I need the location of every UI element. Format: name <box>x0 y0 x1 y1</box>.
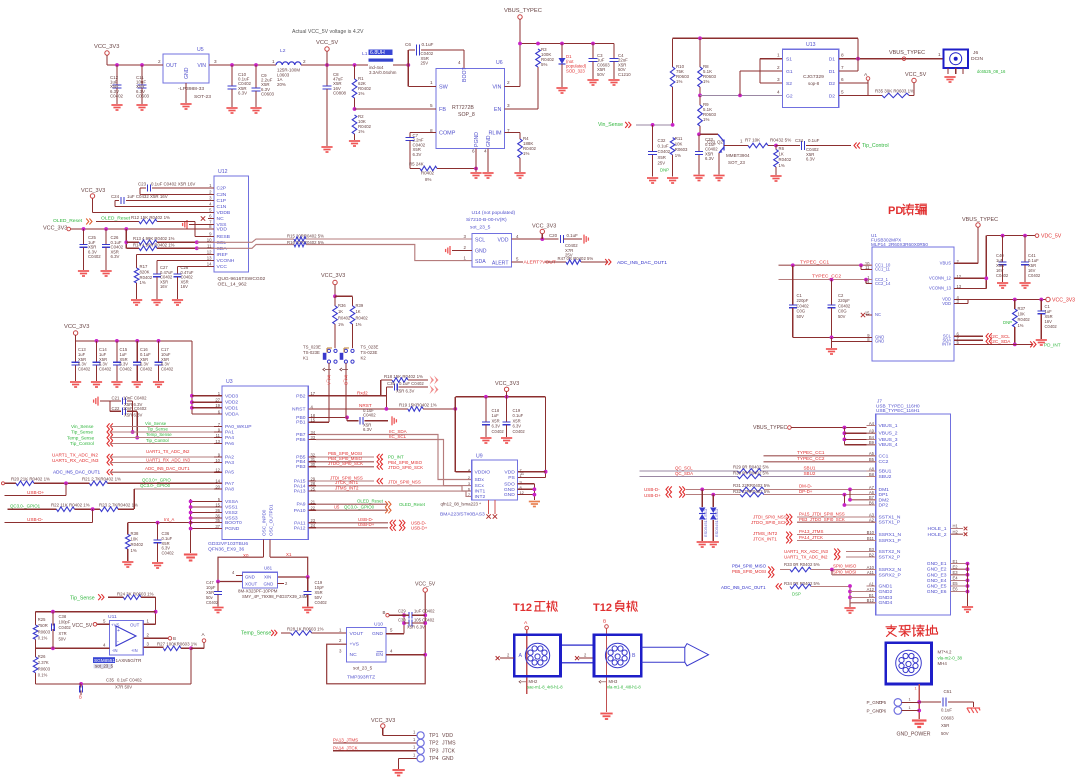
ground <box>70 382 81 387</box>
capacitor C2 <box>831 280 833 305</box>
svg-text:R0603: R0603 <box>38 629 51 634</box>
capacitor C47 xtal left <box>217 582 219 592</box>
svg-text:LP3988-33: LP3988-33 <box>180 86 204 92</box>
capacitor C13 <box>75 341 77 362</box>
svg-text:NRST: NRST <box>292 406 305 412</box>
ground <box>708 542 719 547</box>
wire MH4 down <box>918 684 920 719</box>
ground <box>693 176 704 181</box>
svg-text:1: 1 <box>915 686 917 691</box>
svg-text:S1: S1 <box>786 57 792 63</box>
wire GND pin to caps <box>386 633 404 635</box>
svg-text:ALERT: ALERT <box>492 261 509 267</box>
net USB-D- branch <box>92 509 94 522</box>
svg-text:IIC_SCL: IIC_SCL <box>389 434 407 439</box>
svg-text:R33 0R R0402 5%: R33 0R R0402 5% <box>784 562 820 567</box>
svg-text:SBU2: SBU2 <box>879 474 892 480</box>
svg-text:HOLE_1: HOLE_1 <box>928 526 947 532</box>
svg-text:TP2: TP2 <box>429 741 439 747</box>
ground <box>1036 340 1047 345</box>
svg-text:SSRX1_P: SSRX1_P <box>879 538 902 544</box>
svg-text:C61: C61 <box>944 689 953 694</box>
wire VDD to VCC_3V3 <box>512 238 559 240</box>
svg-text:IREF: IREF <box>217 252 228 258</box>
svg-text:4: 4 <box>458 60 461 65</box>
svg-text:DNP: DNP <box>1003 320 1012 325</box>
svg-text:Si7210-B-00-IV(R): Si7210-B-00-IV(R) <box>466 217 507 223</box>
svg-text:10K: 10K <box>131 537 139 542</box>
svg-text:R39: R39 <box>356 303 364 308</box>
ground <box>302 608 313 613</box>
svg-text:VIN: VIN <box>492 84 501 90</box>
svg-text:PA4: PA4 <box>225 435 234 441</box>
testpoint TP6 <box>894 707 902 715</box>
svg-text:R25: R25 <box>38 617 46 622</box>
svg-text:C0402: C0402 <box>140 367 153 372</box>
svg-text:U9: U9 <box>476 454 483 460</box>
svg-text:0.1%: 0.1% <box>38 673 48 678</box>
svg-text:SSRX2_P: SSRX2_P <box>879 572 902 578</box>
svg-text:XIN: XIN <box>264 575 271 580</box>
svg-text:USB-D+: USB-D+ <box>644 493 661 498</box>
svg-text:TMP393RTZ: TMP393RTZ <box>347 675 375 681</box>
svg-text:VDD: VDD <box>942 301 951 306</box>
svg-text:1%: 1% <box>140 280 146 285</box>
net PA11 USB-D- <box>316 522 388 524</box>
svg-text:VCC_5V: VCC_5V <box>316 40 338 46</box>
svg-text:T12: T12 <box>513 602 532 614</box>
svg-text:QUG-9616TSWCG02: QUG-9616TSWCG02 <box>218 276 266 282</box>
svg-text:8: 8 <box>841 53 844 58</box>
wire OSC_OUT X1 <box>269 539 271 557</box>
capacitor C19 u9 <box>506 397 508 422</box>
svg-text:0.1uF: 0.1uF <box>422 42 434 47</box>
svg-text:SBU2: SBU2 <box>804 471 816 476</box>
svg-text:K2: K2 <box>361 355 367 360</box>
ground <box>111 382 122 387</box>
switch K1 TS_023E <box>327 349 330 352</box>
svg-text:0.1%: 0.1% <box>38 636 48 641</box>
svg-text:PB1: PB1 <box>296 420 306 426</box>
svg-text:C0808: C0808 <box>333 90 347 95</box>
capacitor C35 <box>381 395 387 397</box>
svg-text:PA2: PA2 <box>225 454 234 460</box>
svg-text:X5R 6.3V: X5R 6.3V <box>124 412 142 417</box>
svg-text:OEL_14_962: OEL_14_962 <box>218 282 247 288</box>
svg-text:C0402: C0402 <box>161 367 174 372</box>
svg-text:C23: C23 <box>138 182 147 187</box>
svg-text:INT2: INT2 <box>475 494 486 500</box>
connector MH1 <box>514 635 560 677</box>
svg-text:VCC_3V3: VCC_3V3 <box>1052 298 1075 304</box>
svg-text:C0603: C0603 <box>941 715 954 720</box>
svg-text:100pF: 100pF <box>59 620 71 625</box>
svg-text:R0402: R0402 <box>421 171 435 176</box>
wire PB7 I2C SDA to U9 <box>316 435 472 480</box>
svg-text:JTMS_INT2: JTMS_INT2 <box>753 531 778 536</box>
svg-text:TP3: TP3 <box>429 749 439 755</box>
svg-text:C20: C20 <box>549 233 558 238</box>
wire K2 to PB0 <box>345 363 347 417</box>
resistor R35 <box>882 93 909 98</box>
svg-text:VCONN_13: VCONN_13 <box>929 286 952 291</box>
svg-text:C35: C35 <box>387 381 395 386</box>
regulator U5 LP3988-33 <box>163 54 209 83</box>
resistor R26 <box>35 648 37 657</box>
svg-text:C0402: C0402 <box>363 413 376 418</box>
svg-text:NC: NC <box>875 312 881 317</box>
svg-text:DP-D+: DP-D+ <box>799 489 813 494</box>
svg-text:INT1: INT1 <box>475 489 486 495</box>
svg-text:PB6: PB6 <box>296 437 306 443</box>
svg-text:R20 21K R0402 1%: R20 21K R0402 1% <box>11 476 50 481</box>
svg-text:FB: FB <box>439 107 446 113</box>
svg-text:16V: 16V <box>160 284 168 289</box>
svg-text:R0402: R0402 <box>140 275 153 280</box>
svg-text:C34: C34 <box>795 138 804 143</box>
svg-text:C0402: C0402 <box>513 429 526 434</box>
ground power <box>912 721 927 728</box>
svg-text:INT#: INT# <box>942 342 952 347</box>
net PA10 QC GPIO <box>316 509 388 511</box>
ground earth <box>973 702 975 707</box>
svg-text:0.1uF C0402: 0.1uF C0402 <box>399 381 424 386</box>
svg-text:5: 5 <box>841 89 844 94</box>
svg-text:GND_E5: GND_E5 <box>927 584 947 590</box>
net PA15 NSS <box>316 480 374 482</box>
svg-text:L1: L1 <box>362 51 368 57</box>
svg-text:7: 7 <box>468 492 470 497</box>
wire EN to R3 <box>505 108 539 110</box>
svg-text:R11: R11 <box>675 136 683 141</box>
wire decoupling rail <box>76 340 192 342</box>
wire BOOT0 Int_A <box>128 522 214 524</box>
svg-text:SSRX2_N: SSRX2_N <box>879 567 902 573</box>
svg-text:VDD: VDD <box>217 227 228 233</box>
svg-text:PGND: PGND <box>474 132 480 147</box>
ground <box>180 104 191 109</box>
svg-text:UART1_TX_ADC_IN2: UART1_TX_ADC_IN2 <box>146 449 190 454</box>
svg-text:H2: H2 <box>953 529 959 534</box>
svg-text:OLED_Reset: OLED_Reset <box>399 502 426 507</box>
svg-text:DM-D-: DM-D- <box>799 484 813 489</box>
svg-text:U13: U13 <box>806 42 816 48</box>
svg-text:USB-D+: USB-D+ <box>27 490 44 495</box>
svg-text:1: 1 <box>938 52 941 57</box>
svg-text:PA0_WKUP: PA0_WKUP <box>225 424 252 430</box>
svg-text:GND_E6: GND_E6 <box>927 589 947 595</box>
wire NRST <box>316 408 408 410</box>
wire PB1 to K1 line <box>316 421 329 423</box>
svg-text:10nF C0402: 10nF C0402 <box>123 395 147 400</box>
svg-text:10nF C0402: 10nF C0402 <box>123 406 147 411</box>
wire INT# <box>954 343 1033 345</box>
svg-text:1%: 1% <box>779 163 785 168</box>
svg-text:6.3V: 6.3V <box>705 156 714 161</box>
wire L1 node to SW <box>393 64 408 66</box>
svg-text:4: 4 <box>777 89 780 94</box>
svg-text:VSS2: VSS2 <box>225 510 238 516</box>
svg-text:Int_A: Int_A <box>326 375 331 385</box>
svg-text:C22: C22 <box>112 406 120 411</box>
capacitor C21 <box>110 400 121 402</box>
capacitor C19 xtal right <box>307 577 309 591</box>
svg-text:SOT_23: SOT_23 <box>728 160 745 165</box>
ground <box>132 382 143 387</box>
svg-text:QC3.0+_GPIO: QC3.0+_GPIO <box>142 478 171 483</box>
svg-text:1%: 1% <box>358 129 364 134</box>
svg-text:1%: 1% <box>676 79 682 84</box>
resistor R5 <box>410 168 420 170</box>
capacitor C7 and COMP <box>410 132 436 134</box>
svg-text:QC_SDA: QC_SDA <box>675 471 693 476</box>
svg-text:3: 3 <box>777 77 780 82</box>
net label Tip_Control <box>854 143 860 149</box>
svg-text:GND_POWER: GND_POWER <box>897 732 931 738</box>
svg-text:6.3V: 6.3V <box>111 254 120 259</box>
svg-text:R18 15K R0402 1%: R18 15K R0402 1% <box>384 374 423 379</box>
svg-text:25V: 25V <box>421 61 429 66</box>
svg-text:GND: GND <box>504 492 515 498</box>
capacitor C30 <box>409 620 412 627</box>
resistor R13 SCL pullup <box>125 229 127 248</box>
svg-text:CC1: CC1 <box>879 453 889 459</box>
svg-text:U81: U81 <box>264 566 273 571</box>
ground <box>529 502 540 507</box>
junction dots SCL SDA <box>195 240 199 244</box>
svg-text:PA5: PA5 <box>225 470 234 476</box>
svg-text:1: 1 <box>909 697 911 702</box>
svg-text:MLP14_2R60X3R60X0R50: MLP14_2R60X3R60X0R50 <box>871 242 928 247</box>
svg-text:VCC_3V3: VCC_3V3 <box>371 718 395 724</box>
svg-text:C0402: C0402 <box>1045 324 1058 329</box>
svg-text:3: 3 <box>507 103 510 108</box>
svg-text:SSTX1_P: SSTX1_P <box>879 520 901 526</box>
net PB4 SPI MISO <box>316 461 374 463</box>
svg-text:C0402: C0402 <box>120 367 133 372</box>
tvs diode ESD5451X 1 <box>701 489 703 507</box>
wire A to connector <box>526 630 528 694</box>
svg-text:I2C_SCL: I2C_SCL <box>991 334 1010 339</box>
svg-text:M7*4.2: M7*4.2 <box>938 650 953 655</box>
svg-text:1%: 1% <box>675 153 681 158</box>
wire VDD rail <box>954 299 1046 301</box>
svg-text:TYPEC_CC1: TYPEC_CC1 <box>800 259 829 265</box>
svg-text:BOOT: BOOT <box>462 66 468 82</box>
svg-text:C35: C35 <box>106 678 114 683</box>
svg-text:Tip_Control: Tip_Control <box>70 441 94 446</box>
wire VCC_3V3 rail above U9 <box>455 396 545 398</box>
svg-text:JTCK_INT1: JTCK_INT1 <box>753 537 777 542</box>
capacitor C3 <box>592 44 594 59</box>
svg-text:C2P: C2P <box>217 186 227 192</box>
svg-text:PA8: PA8 <box>225 486 234 492</box>
oled driver U12 <box>214 176 249 272</box>
svg-text:HOLE_2: HOLE_2 <box>928 532 947 538</box>
wire TYPEC_CC1 <box>779 264 873 266</box>
svg-text:C0402: C0402 <box>492 429 505 434</box>
wire K1 to PB1 <box>328 363 330 422</box>
wire left vertical to VDDIO <box>454 397 456 472</box>
capacitor C33 <box>698 134 700 151</box>
svg-text:VCC_5V: VCC_5V <box>72 623 93 629</box>
svg-text:OLED_Reset: OLED_Reset <box>101 216 131 222</box>
svg-text:SCL: SCL <box>475 238 485 244</box>
svg-text:DM1: DM1 <box>879 487 890 493</box>
svg-text:X5R 6.3V: X5R 6.3V <box>407 625 425 630</box>
wire FB <box>355 108 436 110</box>
svg-text:Tip_Control: Tip_Control <box>146 438 169 443</box>
resistor R39 <box>352 296 354 306</box>
svg-text:MH4: MH4 <box>938 661 948 666</box>
ground <box>608 80 619 85</box>
svg-text:0.1uF C0402: 0.1uF C0402 <box>117 678 142 683</box>
svg-text:sot_23_5: sot_23_5 <box>470 225 491 231</box>
net PB5 SPI MOSI <box>316 456 374 458</box>
svg-text:JTDO_SPI0_SCK: JTDO_SPI0_SCK <box>328 461 363 466</box>
svg-text:+VS: +VS <box>350 642 360 648</box>
resistor R10 <box>672 38 674 67</box>
wire GND pins j7 <box>849 586 851 603</box>
svg-text:MH2: MH2 <box>529 679 538 684</box>
svg-text:VCC_5V: VCC_5V <box>905 72 927 78</box>
svg-text:PA13: PA13 <box>294 489 306 495</box>
svg-text:JTCK: JTCK <box>442 749 456 755</box>
capacitor C9 <box>255 65 257 88</box>
svg-text:50V: 50V <box>59 636 67 641</box>
svg-text:1: 1 <box>909 705 911 710</box>
svg-text:PA9: PA9 <box>297 502 306 508</box>
svg-text:0.1uF: 0.1uF <box>567 233 579 238</box>
svg-text:T12: T12 <box>593 602 612 614</box>
net A stub <box>839 82 868 84</box>
svg-text:SOD_323: SOD_323 <box>566 68 585 73</box>
wire gate node to U13 <box>700 94 783 96</box>
net port B <box>168 637 171 640</box>
capacitor C40 <box>1002 236 1004 262</box>
svg-text:6.8UH: 6.8UH <box>370 50 385 56</box>
svg-text:750R: 750R <box>38 623 48 628</box>
arrow net <box>430 385 435 394</box>
svg-text:DM2: DM2 <box>879 497 890 503</box>
wire L2 to VCC_5V node <box>301 64 368 66</box>
svg-text:PA12: PA12 <box>294 525 306 531</box>
svg-text:SMY_4P_79X98_P4D37X39_24M: SMY_4P_79X98_P4D37X39_24M <box>242 594 308 599</box>
svg-text:A: A <box>519 653 523 659</box>
ground <box>111 105 122 110</box>
capacitor C34 <box>776 145 800 147</box>
capacitor C41 <box>1024 236 1026 262</box>
svg-text:CC1_11: CC1_11 <box>875 267 891 272</box>
svg-text:S2: S2 <box>786 81 792 87</box>
svg-text:VCC_3V3: VCC_3V3 <box>81 188 105 194</box>
net ALERT VOUT <box>512 261 524 263</box>
svg-text:C0402: C0402 <box>88 254 101 259</box>
svg-text:1%: 1% <box>358 91 364 96</box>
svg-text:SPI0_MISO: SPI0_MISO <box>833 564 857 569</box>
svg-text:1: 1 <box>272 59 275 64</box>
svg-text:Q2: Q2 <box>717 140 723 145</box>
wire PB6 I2C SCL to U9 <box>316 440 472 486</box>
svg-text:PGND: PGND <box>225 526 240 532</box>
svg-text:JTDO_SPI0_SCK: JTDO_SPI0_SCK <box>388 465 423 470</box>
svg-text:C0603: C0603 <box>136 93 150 98</box>
ground <box>250 108 261 113</box>
svg-text:Temp_Sense: Temp_Sense <box>241 631 271 637</box>
svg-text:MMBT3904: MMBT3904 <box>726 153 750 158</box>
svg-text:L2: L2 <box>280 48 286 54</box>
svg-text:VBUS_1: VBUS_1 <box>879 423 898 429</box>
capacitor C16 <box>136 341 138 362</box>
svg-text:+VS: +VS <box>111 623 120 628</box>
arrow net <box>430 376 435 385</box>
svg-text:SOP_8: SOP_8 <box>458 112 475 118</box>
svg-text:R21 2.7KR0402 1%: R21 2.7KR0402 1% <box>82 476 121 481</box>
svg-text:VDDIO: VDDIO <box>475 469 491 475</box>
resistor R3 <box>536 49 541 67</box>
wire feedback node <box>155 597 157 624</box>
svg-text:U5: U5 <box>334 505 340 510</box>
svg-text:PD: PD <box>888 205 903 217</box>
op amp U11 SGM8551 <box>110 621 144 655</box>
svg-text:4: 4 <box>484 149 487 154</box>
svg-text:2: 2 <box>777 65 780 70</box>
svg-text:SBU1: SBU1 <box>879 468 892 474</box>
capacitor C18 <box>485 397 487 422</box>
svg-text:R0402: R0402 <box>338 316 351 321</box>
svg-text:GND: GND <box>442 756 454 762</box>
svg-text:NC: NC <box>217 216 225 222</box>
svg-text:RT7272B: RT7272B <box>452 105 474 111</box>
svg-text:PA14_JTCK: PA14_JTCK <box>799 535 823 540</box>
svg-text:X1: X1 <box>286 552 292 557</box>
svg-text:VCC_5V: VCC_5V <box>415 582 436 588</box>
svg-text:PB5_SPI0_MOSI: PB5_SPI0_MOSI <box>732 569 766 574</box>
svg-text:50V: 50V <box>797 314 805 319</box>
wire PGND GND pins <box>475 149 477 173</box>
svg-text:PB2: PB2 <box>296 393 306 399</box>
svg-text:VCC_3V3: VCC_3V3 <box>43 226 67 232</box>
svg-text:C0402: C0402 <box>59 625 72 630</box>
svg-text:DSP: DSP <box>792 591 801 596</box>
svg-text:R0402: R0402 <box>1018 317 1031 322</box>
capacitor C28 VCC <box>178 266 209 268</box>
svg-text:1%: 1% <box>1018 323 1024 328</box>
svg-text:QC3.0-_GPIO1: QC3.0-_GPIO1 <box>10 504 41 509</box>
capacitor C35b <box>80 685 83 692</box>
svg-text:R27 100KR0603 1%: R27 100KR0603 1% <box>157 641 197 646</box>
svg-text:VCC_3V3: VCC_3V3 <box>64 324 89 330</box>
svg-text:PA13_JTMS: PA13_JTMS <box>799 529 823 534</box>
svg-text:TP4: TP4 <box>429 756 439 762</box>
svg-text:25V: 25V <box>658 160 666 165</box>
ground <box>480 438 491 443</box>
svg-text:Tip_Sense: Tip_Sense <box>147 427 168 432</box>
svg-text:U14 (not populated): U14 (not populated) <box>472 210 516 216</box>
svg-text:C21: C21 <box>112 395 120 400</box>
svg-text:G1: G1 <box>786 69 793 75</box>
ground <box>153 382 164 387</box>
sideways ground U14 GND <box>452 250 472 252</box>
svg-text:D1: D1 <box>829 69 836 75</box>
svg-text:VDD: VDD <box>442 733 453 739</box>
transistor Q2 MMBT3904 <box>718 134 724 153</box>
resistor R2 <box>353 107 357 111</box>
wire SCL SDA to labels <box>954 335 983 337</box>
svg-text:VBUS_4: VBUS_4 <box>879 442 898 448</box>
svg-text:PA14_JTCK: PA14_JTCK <box>333 745 358 750</box>
wire PA8 QC GPIO0 <box>134 488 214 490</box>
